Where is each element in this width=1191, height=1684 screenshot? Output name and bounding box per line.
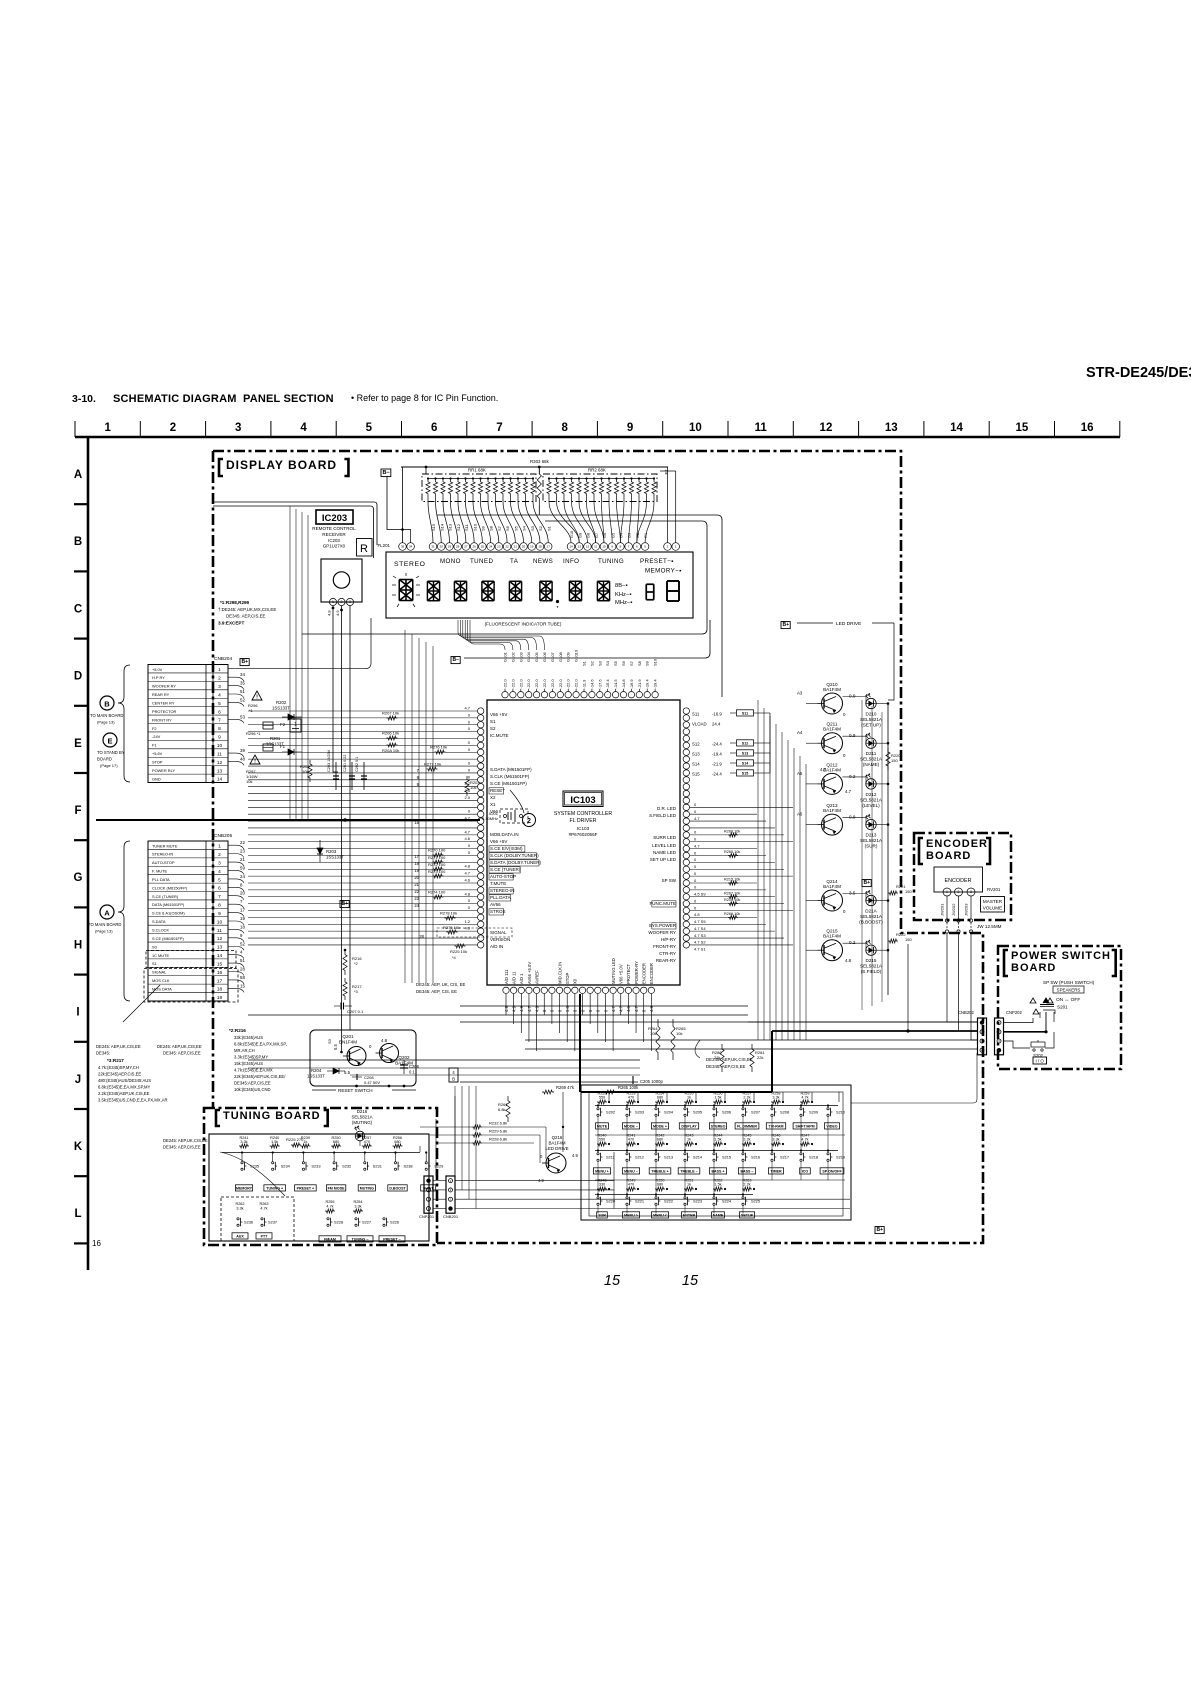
wire matrix bottom rails	[595, 1134, 845, 1136]
svg-text:R262: R262	[235, 1202, 244, 1206]
svg-text:+5.0V: +5.0V	[152, 667, 163, 672]
tuning inner box	[209, 1134, 429, 1241]
svg-text:A/D 111: A/D 111	[504, 969, 509, 984]
svg-text:MEMORY: MEMORY	[236, 1186, 253, 1190]
svg-text:SYSTEM CONTROLLER: SYSTEM CONTROLLER	[554, 811, 612, 817]
svg-text:R225 10k: R225 10k	[450, 949, 467, 954]
svg-text:X2: X2	[490, 795, 496, 800]
svg-text:(Page 13): (Page 13)	[97, 720, 115, 725]
svg-text:S14: S14	[742, 761, 748, 765]
svg-text:MENU −: MENU −	[624, 1169, 638, 1173]
capacitor C208	[352, 1076, 362, 1078]
switch S210	[827, 1108, 829, 1110]
svg-text:SYS.POWER: SYS.POWER	[649, 923, 677, 928]
svg-text:C201 0.22: C201 0.22	[343, 754, 347, 772]
svg-text:1.5k: 1.5k	[714, 1138, 721, 1142]
svg-text:R266 10k: R266 10k	[724, 912, 740, 916]
svg-text:S236: S236	[244, 1220, 253, 1225]
svg-text:4.7: 4.7	[694, 843, 700, 848]
svg-text:BA1F4M: BA1F4M	[823, 687, 841, 692]
svg-text:R270 100: R270 100	[428, 848, 446, 853]
svg-text:RR2 68K: RR2 68K	[588, 468, 606, 473]
svg-text:G101: G101	[503, 651, 508, 662]
svg-text:25: 25	[481, 545, 485, 549]
svg-text:2: 2	[527, 818, 531, 825]
svg-text:S9: S9	[645, 660, 650, 666]
svg-text:S9: S9	[480, 525, 485, 531]
svg-text:PROTECT: PROTECT	[626, 964, 631, 984]
wires S11-S15	[730, 713, 770, 773]
svg-text:S.CLOCK: S.CLOCK	[152, 928, 169, 933]
fl tube pins 14-5	[567, 543, 649, 551]
svg-text:GP1U27X0: GP1U27X0	[323, 544, 346, 549]
switch S218	[800, 1153, 802, 1155]
switch label T/X-RAM	[766, 1123, 785, 1129]
resistor R274 100	[433, 895, 444, 899]
svg-text:3.5: 3.5	[849, 891, 856, 896]
node B- mid	[451, 657, 460, 664]
net box S14	[737, 760, 754, 766]
svg-text:X1: X1	[490, 802, 496, 807]
svg-text:R219 10k: R219 10k	[724, 898, 740, 902]
svg-text:-24V: -24V	[152, 734, 161, 739]
svg-text:680: 680	[657, 1138, 663, 1142]
svg-text:2.2k: 2.2k	[743, 1138, 750, 1142]
svg-text:S3: S3	[597, 660, 602, 666]
svg-text:1.5k: 1.5k	[714, 1096, 721, 1100]
connector CNP201	[424, 1176, 433, 1213]
svg-text:14: 14	[217, 953, 223, 959]
svg-text:S218: S218	[809, 1155, 818, 1160]
svg-text:13: 13	[217, 945, 223, 951]
svg-text:21: 21	[514, 545, 518, 549]
svg-text:F2: F2	[664, 469, 669, 475]
encoder pin 3	[967, 888, 975, 896]
svg-text:R203: R203	[326, 849, 337, 854]
svg-text:1k: 1k	[687, 1096, 691, 1100]
svg-text:G102: G102	[510, 651, 515, 662]
switch label FM MODE	[326, 1185, 345, 1191]
capacitor C207 0.1	[334, 1005, 340, 1007]
svg-text:S231: S231	[373, 1164, 382, 1169]
svg-text:G104: G104	[526, 651, 531, 662]
svg-text:1: 1	[294, 722, 297, 728]
svg-text:E: E	[107, 737, 112, 746]
svg-text:SHIFT/APM: SHIFT/APM	[795, 1124, 814, 1128]
svg-text:LED DRIVE: LED DRIVE	[836, 621, 861, 627]
wire thick gnd bus	[96, 819, 480, 821]
svg-text:MID.CLK.IN: MID.CLK.IN	[557, 962, 562, 984]
svg-text:*1:R298,R299: *1:R298,R299	[220, 600, 250, 605]
svg-text:A6: A6	[797, 812, 803, 817]
svg-text:S5: S5	[613, 660, 618, 666]
svg-text:11: 11	[755, 422, 768, 434]
svg-text:MODE −: MODE −	[624, 1124, 638, 1128]
svg-text:35: 35	[240, 681, 245, 686]
wire thick power down	[579, 994, 581, 1092]
svg-text:R267 10k: R267 10k	[724, 891, 740, 895]
svg-text:-22.0: -22.0	[518, 679, 523, 689]
svg-text:10: 10	[689, 422, 702, 434]
switch S216	[742, 1153, 744, 1155]
switch label FM/AM	[319, 1236, 341, 1242]
switch S202 power	[1031, 1042, 1045, 1047]
resistor R220 150	[886, 748, 890, 770]
svg-text:MUTING LED: MUTING LED	[611, 958, 616, 984]
svg-text:I: I	[76, 1007, 79, 1019]
svg-text:8: 8	[218, 903, 221, 909]
wire bus B- to fl	[464, 620, 710, 658]
svg-text:TREBLE −: TREBLE −	[680, 1169, 697, 1173]
svg-text:CNB205: CNB205	[214, 833, 232, 839]
svg-text:D215: D215	[866, 958, 877, 963]
master volume box	[981, 897, 1005, 913]
wire ic203 pin2 down	[341, 606, 343, 1053]
capacitor C205 1000p	[630, 1079, 638, 1081]
switch label SUR	[597, 1212, 608, 1218]
encoder pin 1	[943, 888, 951, 896]
switch S205	[684, 1108, 686, 1110]
svg-text:18: 18	[217, 987, 223, 993]
svg-text:13: 13	[217, 768, 223, 774]
svg-text:(NAME): (NAME)	[863, 762, 880, 767]
svg-text:DE245: AEP,UK,CIS,EE: DE245: AEP,UK,CIS,EE	[96, 1044, 141, 1049]
svg-text:S237: S237	[268, 1220, 277, 1225]
ic103 left pin wires	[248, 706, 477, 945]
wire encoder feed verticals	[907, 944, 909, 1031]
svg-text:TUNED: TUNED	[470, 558, 493, 565]
svg-text:35: 35	[401, 545, 405, 549]
svg-text:16: 16	[92, 1239, 101, 1248]
svg-text:18: 18	[538, 545, 542, 549]
svg-text:STOP: STOP	[152, 760, 163, 765]
svg-text:MASTER: MASTER	[983, 899, 1003, 904]
svg-text:2: 2	[341, 600, 343, 604]
svg-text:150: 150	[905, 937, 912, 942]
switch label SETUP	[740, 1212, 755, 1218]
svg-text:680: 680	[394, 1140, 400, 1144]
svg-text:S.CE (TUNER): S.CE (TUNER)	[490, 867, 521, 872]
connector CNB201	[446, 1176, 455, 1213]
net box S12	[737, 740, 754, 746]
svg-text:G103: G103	[518, 651, 523, 662]
switch S237	[261, 1218, 263, 1220]
svg-text:MODE +: MODE +	[653, 1124, 667, 1128]
svg-text:12: 12	[586, 545, 590, 549]
switch S201 symbol	[1030, 998, 1036, 1003]
wire bus y1049	[525, 1048, 977, 1050]
svg-text:680: 680	[657, 1183, 663, 1187]
switch label MUTE	[596, 1123, 609, 1129]
svg-text:RV201: RV201	[987, 887, 1001, 892]
svg-text:T.MUTE: T.MUTE	[490, 881, 506, 886]
resistor R273 100	[433, 874, 444, 878]
svg-text:D210: D210	[866, 712, 877, 717]
svg-text:1: 1	[104, 422, 111, 434]
switch label MENU >	[622, 1212, 639, 1218]
switch label MEMORY	[235, 1185, 252, 1191]
svg-text:DE345: AEP, CIS, EE: DE345: AEP, CIS, EE	[416, 989, 457, 994]
svg-text:FRONT-RY: FRONT-RY	[653, 944, 676, 949]
wires cnp202 internal	[1004, 1022, 1034, 1024]
svg-text:AUX: AUX	[236, 1234, 244, 1238]
svg-text:R232 6.8k: R232 6.8k	[489, 1121, 507, 1126]
svg-text:J: J	[75, 1074, 81, 1086]
svg-text:10k: 10k	[246, 779, 252, 784]
svg-text:MOS DATA: MOS DATA	[152, 986, 172, 991]
svg-text:S2: S2	[538, 525, 543, 531]
svg-text:DE245: AEP,UK,CIS,EE: DE245: AEP,UK,CIS,EE	[157, 1044, 202, 1049]
switch label NAME	[712, 1212, 725, 1218]
svg-text:8: 8	[562, 422, 569, 434]
svg-text:POWER RLY: POWER RLY	[152, 768, 175, 773]
svg-text:S204: S204	[664, 1110, 674, 1115]
svg-text:BN1F4M: BN1F4M	[339, 1040, 357, 1045]
svg-text:WOOFER RY: WOOFER RY	[648, 930, 676, 935]
svg-text:4.7: 4.7	[820, 767, 827, 772]
svg-text:S14: S14	[439, 523, 444, 531]
svg-text:MENU >: MENU >	[624, 1213, 638, 1217]
svg-text:DATA (M61501FP): DATA (M61501FP)	[152, 902, 185, 907]
svg-text:S229: S229	[434, 1164, 443, 1169]
switch label PRESET +	[295, 1185, 317, 1191]
svg-text:21: 21	[240, 857, 245, 862]
wire vertical bundle left	[290, 506, 308, 820]
power rail B+ top	[401, 466, 668, 468]
svg-text:SP ON/OFF: SP ON/OFF	[822, 1169, 842, 1173]
svg-text:B+: B+	[342, 901, 349, 907]
svg-text:-22.0: -22.0	[542, 679, 547, 689]
wire bus y1060	[248, 1059, 640, 1061]
svg-text:S7: S7	[629, 660, 634, 666]
resistor R265 100k	[604, 1090, 616, 1094]
switch label VIDEO	[825, 1123, 840, 1129]
svg-text:3: 3	[218, 684, 221, 690]
svg-text:TO MAIN BOARD: TO MAIN BOARD	[90, 713, 123, 718]
switch label SP ON/OFF	[820, 1168, 844, 1174]
svg-text:V66 +5V: V66 +5V	[490, 712, 507, 717]
switch matrix box	[581, 1085, 851, 1220]
svg-text:19: 19	[240, 916, 245, 921]
wire base Q214	[806, 900, 818, 902]
svg-text:K: K	[74, 1141, 83, 1153]
svg-text:SEL5821A: SEL5821A	[860, 838, 883, 843]
svg-text:JW203: JW203	[964, 903, 969, 916]
svg-text:(B.BOOST): (B.BOOST)	[859, 920, 883, 925]
svg-text:JW201: JW201	[940, 903, 945, 916]
svg-text:6: 6	[218, 886, 221, 892]
wire bus y1068	[248, 1067, 640, 1069]
svg-text:S15: S15	[431, 523, 436, 531]
svg-text:S11: S11	[692, 712, 700, 717]
svg-text:16: 16	[217, 970, 223, 976]
capacitor C202	[363, 762, 365, 790]
svg-text:C203 16/25V: C203 16/25V	[327, 749, 331, 772]
svg-text:B+: B+	[242, 659, 249, 665]
wire fan anode S group	[428, 502, 548, 543]
label I/O box	[1033, 1057, 1047, 1064]
svg-text:F. MUTE: F. MUTE	[152, 869, 168, 874]
svg-text:G: G	[74, 872, 83, 884]
ic103 bottom pins	[503, 987, 655, 993]
svg-text:CNB204: CNB204	[214, 656, 232, 662]
svg-text:*2:R216: *2:R216	[229, 1028, 246, 1033]
svg-text:ENCODER: ENCODER	[642, 963, 647, 984]
svg-text:G109: G109	[566, 651, 571, 662]
resistor R20A 10k	[387, 743, 398, 747]
svg-text:G7: G7	[595, 533, 599, 538]
svg-text:SURR LED: SURR LED	[653, 835, 677, 840]
switch S203	[626, 1108, 628, 1110]
svg-text:0.47 50V: 0.47 50V	[364, 1080, 380, 1085]
switch label SHIFT	[421, 1185, 436, 1191]
svg-text:CENTER RY: CENTER RY	[152, 701, 175, 706]
wire long bus right inner	[302, 521, 707, 634]
svg-text:-14.6: -14.6	[589, 679, 594, 689]
svg-text:SP SW: SP SW	[662, 878, 677, 883]
svg-text:1.5k: 1.5k	[714, 1183, 721, 1187]
svg-text:10k: 10k	[470, 785, 476, 790]
resistor R225 10k	[455, 944, 466, 948]
svg-text:-17.6: -17.6	[597, 679, 602, 689]
ic103 right internal labels	[648, 806, 676, 963]
reset switch box	[310, 1030, 416, 1086]
switch S206	[713, 1108, 715, 1110]
power switch board title	[1004, 950, 1008, 976]
svg-text:-19.4: -19.4	[712, 752, 722, 757]
svg-text:B: B	[74, 536, 82, 548]
diode D203 1SS133T	[319, 840, 321, 848]
svg-text:59: 59	[240, 865, 245, 870]
encoder block	[934, 867, 983, 892]
grid column ruler	[75, 436, 1120, 439]
svg-text:17: 17	[217, 978, 223, 984]
ic103 left pins	[478, 708, 484, 948]
svg-text:2: 2	[958, 890, 960, 894]
svg-text:53: 53	[240, 714, 245, 719]
wire D211 cathode	[876, 742, 888, 744]
svg-text:6: 6	[431, 422, 437, 434]
wires cnb202 to left	[748, 1021, 977, 1023]
svg-text:4: 4	[218, 692, 221, 698]
svg-text:R254: R254	[353, 1200, 362, 1204]
svg-text:SEL5821A: SEL5821A	[860, 717, 883, 722]
node B+ led drive	[781, 622, 790, 629]
switch S222	[655, 1197, 657, 1199]
ic103 right pins	[683, 708, 689, 948]
svg-text:G1010: G1010	[574, 649, 579, 662]
capacitor C201	[351, 762, 353, 790]
svg-text:2.2k: 2.2k	[743, 1096, 750, 1100]
svg-text:2: 2	[218, 676, 221, 682]
svg-text:1: 1	[218, 667, 221, 673]
svg-text:ENCODER: ENCODER	[945, 878, 972, 884]
display board title	[219, 459, 223, 476]
svg-text:STROS: STROS	[490, 909, 506, 914]
svg-text:S11: S11	[742, 711, 748, 715]
svg-text:4.7: 4.7	[464, 829, 470, 834]
svg-text:10: 10	[217, 919, 223, 925]
svg-text:14: 14	[569, 545, 573, 549]
svg-text:SIGNAL: SIGNAL	[152, 970, 167, 975]
svg-text:150: 150	[905, 889, 912, 894]
svg-text:CNB202: CNB202	[958, 1010, 974, 1015]
svg-text:TUNING BOARD: TUNING BOARD	[223, 1110, 321, 1122]
wire rail to pin35	[402, 467, 404, 543]
svg-text:X0: X0	[573, 978, 578, 984]
svg-text:PLL DATA: PLL DATA	[152, 877, 170, 882]
wire D21A cathode	[876, 900, 888, 902]
svg-text:PANEL SECTION: PANEL SECTION	[243, 393, 334, 405]
wire F2 pin2	[667, 467, 669, 543]
svg-text:R20A 10k: R20A 10k	[382, 748, 399, 753]
resistor R206 10k	[387, 736, 398, 740]
svg-text:10k:(E345)US,CND: 10k:(E345)US,CND	[234, 1087, 271, 1092]
svg-text:26: 26	[472, 545, 476, 549]
svg-text:S226: S226	[390, 1220, 399, 1225]
svg-text:58: 58	[240, 975, 245, 980]
svg-text:6.8k:(E345)E,EA,PX,MX,SP,: 6.8k:(E345)E,EA,PX,MX,SP,	[234, 1042, 287, 1047]
svg-text:22: 22	[505, 545, 509, 549]
fl tube pins 31-17	[429, 543, 552, 551]
display board outline	[213, 451, 983, 1243]
svg-text:20: 20	[522, 545, 526, 549]
svg-text:27: 27	[464, 545, 468, 549]
label reset switch	[312, 1089, 336, 1091]
svg-text:-22.0: -22.0	[503, 679, 508, 689]
svg-text:S6: S6	[505, 525, 510, 531]
svg-text:S1: S1	[582, 660, 587, 666]
resistor R232 6.8k	[472, 1125, 482, 1129]
svg-text:15: 15	[682, 1273, 699, 1289]
svg-text:12: 12	[217, 760, 223, 766]
svg-text:28: 28	[456, 545, 460, 549]
svg-text:5.5: 5.5	[344, 1070, 351, 1075]
svg-text:V66 +5.0V: V66 +5.0V	[619, 964, 624, 984]
svg-text:FM MODE: FM MODE	[328, 1186, 346, 1190]
fl digit 1	[399, 579, 413, 581]
switch S226	[383, 1218, 385, 1220]
wire collector Q212 to D212	[843, 776, 867, 778]
svg-text:S13: S13	[692, 752, 700, 757]
wire base Q211	[806, 742, 818, 744]
svg-text:480:(E345)AUS/DE345:AUS: 480:(E345)AUS/DE345:AUS	[98, 1078, 151, 1083]
switch S202	[597, 1108, 599, 1110]
svg-text:22: 22	[240, 840, 245, 845]
svg-text:S216: S216	[751, 1155, 760, 1160]
wire cnb204 pin1	[228, 618, 371, 669]
power switch board outline	[998, 946, 1121, 1069]
svg-text:FM/AM: FM/AM	[324, 1237, 336, 1241]
svg-text:4: 4	[300, 422, 307, 434]
svg-text:INFO: INFO	[563, 558, 579, 565]
node B+ matrix	[875, 1227, 884, 1234]
svg-text:S13: S13	[742, 751, 748, 755]
wires encoder jumpers	[945, 896, 972, 933]
svg-text:TA: TA	[510, 558, 519, 565]
svg-text:10: 10	[602, 545, 606, 549]
svg-text:4.7 S3: 4.7 S3	[694, 933, 706, 938]
svg-text:3.5k:(E345)US,CND,E,EA,PX,MX,A: 3.5k:(E345)US,CND,E,EA,PX,MX,AR	[98, 1098, 168, 1103]
svg-text:R269 47k: R269 47k	[556, 1085, 575, 1090]
svg-text:18: 18	[240, 924, 245, 929]
svg-text:470: 470	[628, 1138, 634, 1142]
svg-text:S.CE (M61501FP): S.CE (M61501FP)	[490, 781, 527, 786]
svg-text:D: D	[74, 671, 82, 683]
svg-text:SPEAKERS: SPEAKERS	[1057, 988, 1081, 993]
connector CNB202	[978, 1018, 987, 1055]
svg-text:TUNING −: TUNING −	[352, 1237, 369, 1241]
